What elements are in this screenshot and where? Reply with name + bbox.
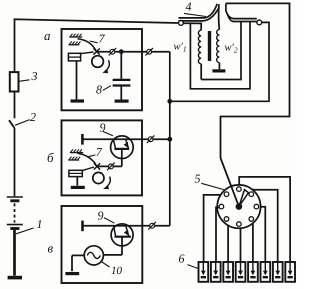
svg-text:10: 10 xyxy=(111,265,123,277)
svg-text:9: 9 xyxy=(98,209,104,223)
svg-text:8: 8 xyxy=(96,83,102,97)
svg-text:а: а xyxy=(44,28,51,43)
svg-text:б: б xyxy=(47,150,54,165)
svg-text:2: 2 xyxy=(30,110,36,124)
svg-text:1: 1 xyxy=(37,217,43,231)
svg-text:6: 6 xyxy=(179,252,185,266)
svg-text:4: 4 xyxy=(186,0,192,14)
svg-text:3: 3 xyxy=(31,69,38,83)
svg-text:7: 7 xyxy=(99,32,106,46)
svg-text:7: 7 xyxy=(96,145,103,159)
svg-text:5: 5 xyxy=(195,172,201,186)
svg-text:в: в xyxy=(48,241,54,256)
svg-text:9: 9 xyxy=(100,121,106,135)
